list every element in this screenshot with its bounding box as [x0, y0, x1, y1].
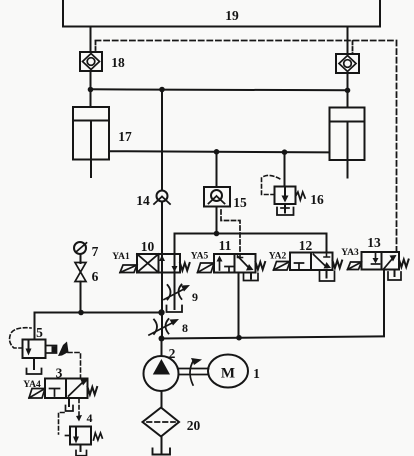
wire manifold down to valve 10 right port: [174, 234, 176, 255]
wire valve 11 drain to manifold: [238, 273, 240, 338]
drain of relief 4: [80, 445, 82, 452]
throttle 9: [164, 285, 190, 300]
node main riser top: [159, 87, 165, 93]
relief valve 16: [275, 187, 296, 205]
wire gauge to valve 6: [80, 254, 82, 263]
wire pump to filter: [161, 391, 163, 408]
wire valve 18 left to node: [90, 71, 92, 90]
tank under throttle 9: [167, 306, 183, 313]
pilot dashed check 15 to valve 11: [221, 210, 240, 253]
valve 12: [290, 253, 333, 271]
svg-text:YA2: YA2: [269, 252, 287, 262]
wire rod-end manifold: [109, 151, 330, 152]
wire branch down to pressure switch 5: [34, 313, 36, 340]
svg-text:19: 19: [225, 8, 239, 23]
svg-text:11: 11: [219, 238, 232, 253]
pilot dashed line top (to valve 13): [96, 41, 397, 252]
spring of valve 10: [180, 263, 190, 271]
svg-text:8: 8: [182, 321, 188, 335]
gauge 7: [74, 242, 87, 254]
svg-text:6: 6: [92, 269, 99, 284]
filter 20: [143, 408, 180, 437]
tank under valve 3: [66, 406, 74, 412]
svg-text:12: 12: [299, 238, 313, 253]
valve 10: [137, 254, 180, 273]
check valve 15: [204, 187, 230, 207]
node above valve 11 pilot: [214, 231, 220, 237]
svg-text:18: 18: [111, 55, 125, 70]
valve 13: [362, 252, 400, 270]
shutoff valve 6: [75, 263, 86, 282]
tank under filter: [153, 449, 171, 455]
svg-text:9: 9: [192, 290, 198, 304]
node gauge branch: [78, 310, 84, 316]
wire beam to valve 18 left: [90, 27, 92, 53]
drain of valve 3: [68, 398, 70, 406]
wire main riser: [161, 90, 163, 339]
tank under valve 13: [388, 270, 401, 281]
valve 3: [45, 379, 88, 399]
node above relief 16: [282, 149, 288, 155]
pilot dashed 5 to valve 3: [68, 353, 81, 379]
dashed drain link to relief 4 inlet: [59, 413, 65, 435]
svg-text:YA1: YA1: [112, 252, 130, 262]
wire drain manifold to valve 13: [162, 270, 385, 339]
svg-text:5: 5: [36, 325, 43, 340]
solenoid YA4: [29, 389, 45, 399]
svg-text:14: 14: [136, 193, 150, 208]
svg-text:1: 1: [253, 366, 260, 381]
pilot dashed stub to valve 18 left: [95, 41, 97, 50]
check valve 14: [154, 191, 170, 205]
wire valve 10 to throttle 9: [174, 254, 176, 309]
svg-text:13: 13: [367, 235, 381, 250]
cylinder right: [330, 90, 365, 178]
spring of valve 11: [256, 262, 266, 270]
svg-text:4: 4: [87, 411, 93, 425]
svg-text:15: 15: [233, 195, 247, 210]
svg-text:10: 10: [141, 239, 155, 254]
svg-text:7: 7: [92, 244, 99, 259]
wire filter to tank: [161, 437, 163, 453]
rotation arrow: [190, 358, 202, 385]
svg-text:20: 20: [187, 418, 201, 433]
valve 11: [214, 254, 256, 273]
tank under valve 11: [244, 273, 259, 281]
node main riser / branch: [158, 309, 164, 315]
throttle 8: [149, 319, 179, 335]
cylinder 17 left: [73, 90, 109, 178]
wire valve 18 right to node: [347, 73, 349, 90]
svg-text:16: 16: [310, 192, 324, 207]
drive shaft: [179, 369, 209, 375]
pilot dashed loop of 5: [10, 328, 31, 348]
spring of valve 13: [399, 260, 409, 268]
tank under relief 4: [76, 451, 87, 456]
tank under 5: [27, 369, 42, 375]
tank under valve 12: [320, 270, 335, 281]
pilot dashed stub to valve 18 right: [352, 41, 354, 54]
wire valve 6 to branch: [80, 282, 82, 313]
wire manifold down to valve 12: [326, 234, 328, 253]
motor 1: [208, 355, 248, 388]
spring of relief 4: [94, 433, 103, 440]
wire beam to valve 18 right: [347, 27, 349, 55]
node pump outlet: [159, 336, 165, 342]
solenoid YA2: [274, 262, 291, 271]
wire check 15 riser: [216, 152, 218, 234]
drain of 16: [277, 204, 294, 215]
pilot dashed loop of 16: [262, 175, 283, 194]
svg-text:YA3: YA3: [341, 248, 359, 258]
solenoid YA1: [120, 265, 137, 273]
wire valve bank top manifold: [175, 233, 327, 235]
pressure switch 5: [23, 340, 69, 359]
pilot check valve 18 left: [80, 52, 102, 71]
spring of valve 12: [333, 261, 343, 269]
node above check 15: [214, 149, 220, 155]
solenoid YA3: [348, 262, 362, 270]
node at cylinder 17 left cap port: [88, 87, 94, 93]
node valve 11 drain: [236, 335, 242, 341]
wire left branch line: [35, 312, 162, 314]
relief valve 4: [66, 427, 92, 445]
svg-text:M: M: [221, 366, 235, 382]
svg-text:17: 17: [118, 129, 132, 144]
solenoid YA5: [198, 263, 215, 273]
wire relief 16 riser: [284, 152, 286, 186]
spring of 16: [296, 192, 306, 200]
pilot dashed valve 3 to relief 4: [78, 399, 80, 417]
wire upper manifold: [91, 89, 348, 90]
pump 2: [144, 339, 179, 392]
platform beam 19: [63, 0, 380, 27]
drain of 5: [33, 358, 35, 369]
node at cylinder right cap port: [345, 88, 351, 94]
pilot check valve 18 right: [336, 54, 359, 73]
svg-text:YA5: YA5: [191, 252, 209, 262]
spring of valve 3: [88, 387, 98, 395]
